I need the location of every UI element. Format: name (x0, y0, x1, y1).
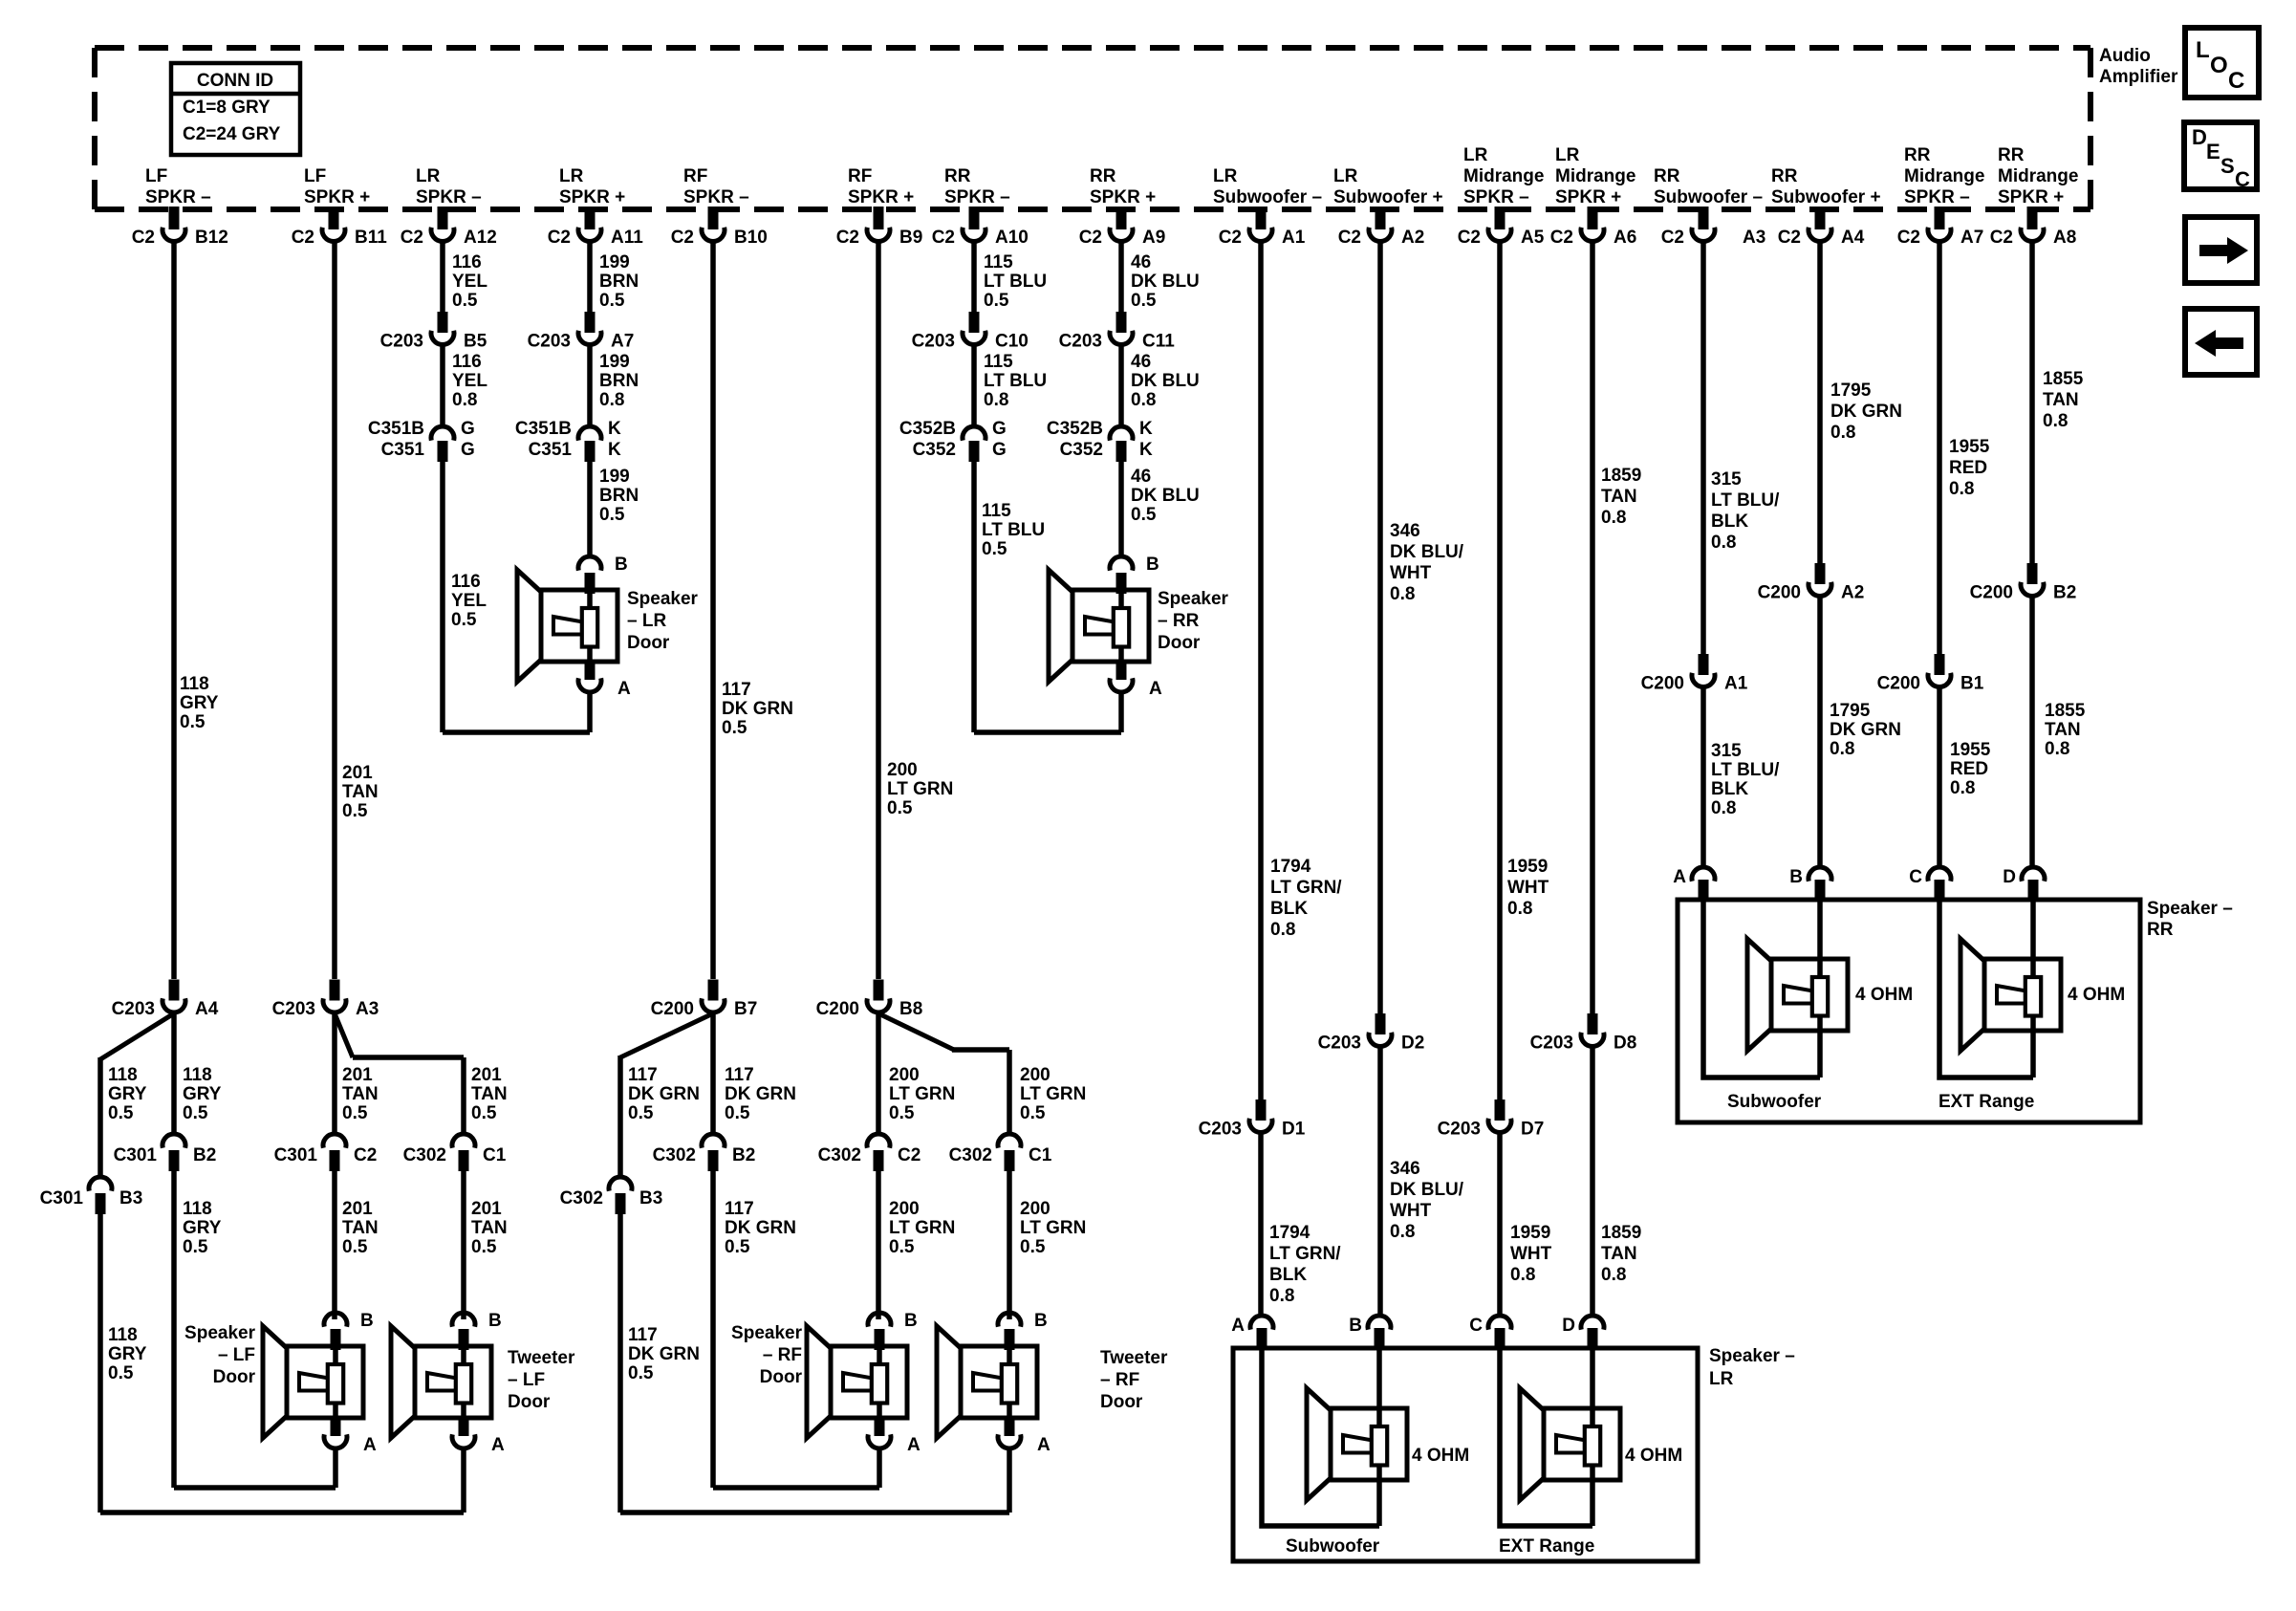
svg-text:1794: 1794 (1269, 1223, 1310, 1243)
svg-text:0.5: 0.5 (1020, 1237, 1046, 1257)
svg-text:D7: D7 (1521, 1120, 1544, 1140)
svg-text:Subwoofer –: Subwoofer – (1654, 187, 1763, 207)
svg-text:B1: B1 (1960, 674, 1984, 694)
svg-text:D: D (1562, 1316, 1575, 1336)
svg-text:0.5: 0.5 (725, 1237, 750, 1257)
svg-text:TAN: TAN (2045, 720, 2081, 740)
svg-text:RR: RR (1771, 166, 1798, 186)
svg-text:CONN ID: CONN ID (197, 71, 273, 91)
svg-text:Door: Door (1100, 1392, 1143, 1412)
svg-text:B5: B5 (464, 332, 487, 352)
svg-text:Speaker: Speaker (731, 1323, 803, 1343)
svg-text:346: 346 (1390, 1159, 1420, 1179)
svg-text:115: 115 (984, 352, 1013, 372)
svg-text:C200: C200 (816, 999, 859, 1019)
svg-text:G: G (461, 419, 475, 439)
svg-text:1859: 1859 (1601, 466, 1641, 486)
svg-text:Speaker: Speaker (184, 1323, 256, 1343)
svg-text:– LF: – LF (508, 1370, 545, 1390)
svg-text:0.5: 0.5 (342, 1103, 368, 1123)
svg-text:C2: C2 (1661, 228, 1684, 248)
svg-text:GRY: GRY (108, 1344, 147, 1364)
svg-text:315: 315 (1711, 741, 1742, 761)
svg-text:A: A (1037, 1435, 1051, 1455)
svg-text:Subwoofer: Subwoofer (1286, 1536, 1380, 1557)
svg-text:B: B (904, 1311, 918, 1331)
svg-text:0.8: 0.8 (1949, 479, 1974, 499)
svg-text:SPKR –: SPKR – (1904, 187, 1970, 207)
svg-text:TAN: TAN (471, 1084, 508, 1104)
svg-text:C301: C301 (114, 1145, 158, 1165)
svg-text:A: A (491, 1435, 505, 1455)
svg-text:Door: Door (760, 1367, 803, 1387)
svg-text:199: 199 (599, 467, 630, 487)
svg-text:D: D (2003, 867, 2016, 887)
svg-text:K: K (608, 440, 621, 460)
svg-text:SPKR –: SPKR – (944, 187, 1010, 207)
svg-text:1795: 1795 (1830, 381, 1872, 401)
svg-text:B2: B2 (732, 1145, 755, 1165)
svg-text:WHT: WHT (1510, 1244, 1552, 1264)
svg-text:1794: 1794 (1270, 857, 1311, 877)
svg-text:GRY: GRY (183, 1218, 222, 1238)
svg-text:0.5: 0.5 (471, 1237, 497, 1257)
svg-text:A8: A8 (2053, 228, 2076, 248)
svg-text:0.5: 0.5 (628, 1103, 654, 1123)
svg-text:WHT: WHT (1390, 1201, 1432, 1221)
svg-text:C352B: C352B (899, 419, 956, 439)
svg-text:Speaker: Speaker (627, 589, 699, 609)
svg-text:LT GRN: LT GRN (1020, 1218, 1086, 1238)
svg-text:116: 116 (452, 252, 482, 272)
svg-text:RR: RR (1998, 145, 2025, 165)
svg-text:0.5: 0.5 (984, 291, 1009, 311)
svg-text:BRN: BRN (599, 272, 639, 292)
svg-text:DK GRN: DK GRN (722, 699, 793, 719)
svg-text:4 OHM: 4 OHM (2068, 985, 2125, 1005)
svg-text:C302: C302 (403, 1145, 446, 1165)
svg-text:DK GRN: DK GRN (628, 1084, 700, 1104)
svg-text:C302: C302 (653, 1145, 696, 1165)
svg-text:S: S (2220, 154, 2235, 178)
svg-text:O: O (2210, 53, 2228, 78)
svg-text:0.5: 0.5 (889, 1237, 915, 1257)
svg-text:DK BLU/: DK BLU/ (1390, 542, 1464, 562)
svg-text:RR: RR (1090, 166, 1116, 186)
svg-text:BLK: BLK (1270, 899, 1308, 919)
svg-text:C2: C2 (1219, 228, 1242, 248)
svg-text:0.8: 0.8 (599, 390, 624, 410)
svg-text:Subwoofer –: Subwoofer – (1213, 187, 1322, 207)
svg-text:LT BLU/: LT BLU/ (1711, 490, 1780, 511)
svg-text:Midrange: Midrange (1555, 166, 1635, 186)
svg-text:– RF: – RF (763, 1345, 802, 1365)
svg-text:RR: RR (2147, 920, 2174, 940)
svg-text:LR: LR (1333, 166, 1358, 186)
svg-text:C: C (1469, 1316, 1483, 1336)
svg-text:315: 315 (1711, 469, 1742, 490)
svg-text:C200: C200 (1641, 674, 1684, 694)
svg-text:C301: C301 (40, 1188, 84, 1208)
svg-text:200: 200 (889, 1199, 920, 1219)
svg-text:0.5: 0.5 (599, 291, 625, 311)
svg-text:0.5: 0.5 (183, 1237, 208, 1257)
svg-text:C1: C1 (483, 1145, 507, 1165)
svg-text:LR: LR (416, 166, 441, 186)
svg-text:46: 46 (1131, 467, 1151, 487)
svg-text:C2: C2 (1079, 228, 1102, 248)
svg-text:C203: C203 (380, 332, 423, 352)
svg-text:TAN: TAN (342, 782, 379, 802)
svg-text:A4: A4 (1841, 228, 1865, 248)
svg-text:C203: C203 (112, 999, 155, 1019)
svg-text:200: 200 (887, 760, 918, 780)
svg-text:GRY: GRY (180, 693, 219, 713)
svg-text:1855: 1855 (2043, 369, 2084, 389)
svg-text:B2: B2 (193, 1145, 216, 1165)
svg-text:0.8: 0.8 (1601, 508, 1626, 528)
svg-text:C352B: C352B (1047, 419, 1103, 439)
svg-text:B10: B10 (734, 228, 768, 248)
svg-text:C200: C200 (1970, 583, 2013, 603)
svg-text:BRN: BRN (599, 486, 639, 506)
svg-text:C301: C301 (274, 1145, 318, 1165)
svg-text:LR: LR (1555, 145, 1580, 165)
svg-text:Speaker –: Speaker – (2147, 899, 2233, 919)
svg-text:LT BLU: LT BLU (984, 371, 1047, 391)
svg-text:C203: C203 (528, 332, 571, 352)
svg-text:200: 200 (1020, 1199, 1051, 1219)
svg-text:115: 115 (984, 252, 1013, 272)
svg-text:– LR: – LR (627, 611, 666, 631)
svg-text:TAN: TAN (1601, 487, 1637, 507)
svg-text:117: 117 (628, 1325, 658, 1345)
svg-text:D2: D2 (1401, 1034, 1424, 1054)
svg-text:B12: B12 (195, 228, 228, 248)
svg-text:TAN: TAN (1601, 1244, 1637, 1264)
svg-text:0.8: 0.8 (1950, 778, 1975, 798)
svg-text:0.8: 0.8 (1270, 920, 1295, 940)
svg-text:0.5: 0.5 (471, 1103, 497, 1123)
svg-text:201: 201 (342, 763, 373, 783)
svg-text:SPKR –: SPKR – (416, 187, 482, 207)
svg-text:RR: RR (944, 166, 971, 186)
svg-text:0.8: 0.8 (1131, 390, 1156, 410)
svg-text:0.5: 0.5 (342, 801, 368, 821)
svg-text:1955: 1955 (1950, 740, 1991, 760)
svg-text:0.8: 0.8 (1269, 1286, 1294, 1306)
svg-text:0.8: 0.8 (2045, 739, 2069, 759)
svg-text:C2: C2 (292, 228, 314, 248)
svg-text:C11: C11 (1142, 332, 1175, 352)
svg-text:C351B: C351B (368, 419, 424, 439)
svg-text:0.5: 0.5 (982, 539, 1007, 559)
svg-text:C2: C2 (932, 228, 955, 248)
svg-text:A: A (907, 1435, 921, 1455)
svg-text:C: C (1909, 867, 1922, 887)
svg-text:C: C (2228, 68, 2244, 94)
svg-text:B3: B3 (119, 1188, 142, 1208)
svg-text:0.5: 0.5 (183, 1103, 208, 1123)
svg-text:RR: RR (1654, 166, 1680, 186)
svg-text:A1: A1 (1724, 674, 1748, 694)
svg-text:G: G (992, 419, 1007, 439)
svg-text:0.8: 0.8 (1510, 1265, 1535, 1285)
svg-text:RED: RED (1950, 759, 1988, 779)
svg-text:DK BLU/: DK BLU/ (1390, 1180, 1464, 1200)
svg-text:SPKR +: SPKR + (1090, 187, 1156, 207)
svg-text:0.8: 0.8 (452, 390, 477, 410)
svg-text:– RF: – RF (1100, 1370, 1139, 1390)
svg-text:117: 117 (725, 1199, 754, 1219)
svg-text:A10: A10 (995, 228, 1029, 248)
svg-text:BLK: BLK (1711, 779, 1748, 799)
svg-text:0.5: 0.5 (887, 798, 913, 818)
svg-text:C351B: C351B (515, 419, 572, 439)
svg-text:C1: C1 (1029, 1145, 1052, 1165)
svg-text:C351: C351 (529, 440, 573, 460)
svg-text:118: 118 (108, 1065, 138, 1085)
svg-text:C203: C203 (912, 332, 955, 352)
svg-text:DK GRN: DK GRN (1830, 402, 1902, 422)
svg-text:0.8: 0.8 (1390, 584, 1415, 604)
svg-text:SPKR +: SPKR + (848, 187, 914, 207)
svg-text:– LF: – LF (218, 1345, 255, 1365)
svg-text:C302: C302 (560, 1188, 603, 1208)
svg-text:118: 118 (183, 1199, 212, 1219)
svg-text:117: 117 (628, 1065, 658, 1085)
svg-text:B: B (1034, 1311, 1048, 1331)
svg-text:4 OHM: 4 OHM (1855, 985, 1913, 1005)
svg-text:118: 118 (183, 1065, 212, 1085)
svg-text:LT GRN: LT GRN (889, 1218, 955, 1238)
svg-text:B: B (1349, 1316, 1362, 1336)
svg-text:C352: C352 (1060, 440, 1103, 460)
svg-text:C2=24 GRY: C2=24 GRY (183, 124, 281, 144)
svg-text:SPKR –: SPKR – (1463, 187, 1529, 207)
svg-text:0.8: 0.8 (1390, 1222, 1415, 1242)
svg-text:EXT Range: EXT Range (1939, 1092, 2034, 1112)
svg-text:B: B (1146, 555, 1159, 575)
svg-text:117: 117 (725, 1065, 754, 1085)
svg-text:201: 201 (471, 1065, 502, 1085)
svg-text:A: A (363, 1435, 377, 1455)
svg-text:LF: LF (145, 166, 167, 186)
svg-text:LT BLU: LT BLU (984, 272, 1047, 292)
svg-text:346: 346 (1390, 521, 1420, 541)
svg-text:LT GRN: LT GRN (887, 779, 953, 799)
svg-text:DK GRN: DK GRN (725, 1218, 796, 1238)
svg-text:LR: LR (1709, 1369, 1734, 1389)
svg-text:4 OHM: 4 OHM (1412, 1446, 1469, 1466)
svg-text:A2: A2 (1401, 228, 1424, 248)
svg-text:A7: A7 (1960, 228, 1983, 248)
svg-text:WHT: WHT (1390, 563, 1432, 583)
svg-text:Amplifier: Amplifier (2099, 67, 2178, 87)
svg-text:YEL: YEL (452, 272, 487, 292)
svg-text:0.5: 0.5 (599, 505, 625, 525)
svg-text:0.5: 0.5 (1020, 1103, 1046, 1123)
svg-text:C203: C203 (1530, 1034, 1573, 1054)
svg-text:B8: B8 (899, 999, 922, 1019)
svg-text:LT GRN/: LT GRN/ (1269, 1244, 1341, 1264)
svg-text:200: 200 (889, 1065, 920, 1085)
svg-text:Midrange: Midrange (1463, 166, 1544, 186)
svg-text:A6: A6 (1614, 228, 1636, 248)
svg-text:DK BLU: DK BLU (1131, 272, 1200, 292)
svg-text:LT GRN: LT GRN (1020, 1084, 1086, 1104)
svg-text:– RR: – RR (1158, 611, 1200, 631)
svg-text:C2: C2 (1550, 228, 1573, 248)
svg-text:C203: C203 (1318, 1034, 1361, 1054)
svg-text:TAN: TAN (342, 1084, 379, 1104)
svg-text:DK BLU: DK BLU (1131, 486, 1200, 506)
svg-text:RR: RR (1904, 145, 1931, 165)
svg-text:A3: A3 (356, 999, 379, 1019)
svg-text:C: C (2235, 167, 2250, 191)
svg-text:A: A (1673, 867, 1686, 887)
svg-text:C203: C203 (272, 999, 315, 1019)
svg-text:BLK: BLK (1269, 1265, 1307, 1285)
svg-text:201: 201 (342, 1199, 373, 1219)
svg-text:0.8: 0.8 (2043, 411, 2068, 431)
svg-text:0.5: 0.5 (1131, 505, 1157, 525)
svg-text:SPKR –: SPKR – (683, 187, 749, 207)
svg-text:G: G (461, 440, 475, 460)
svg-text:A3: A3 (1743, 228, 1765, 248)
svg-text:C352: C352 (913, 440, 956, 460)
svg-text:WHT: WHT (1507, 878, 1549, 898)
svg-text:Subwoofer: Subwoofer (1727, 1092, 1822, 1112)
svg-text:46: 46 (1131, 252, 1151, 272)
svg-text:LT GRN/: LT GRN/ (1270, 878, 1342, 898)
svg-text:0.8: 0.8 (1830, 423, 1855, 443)
svg-text:1795: 1795 (1830, 701, 1871, 721)
svg-text:0.5: 0.5 (108, 1363, 134, 1383)
svg-text:D1: D1 (1282, 1120, 1306, 1140)
svg-text:L: L (2196, 37, 2210, 63)
svg-text:SPKR +: SPKR + (1998, 187, 2064, 207)
svg-text:C302: C302 (949, 1145, 992, 1165)
svg-text:116: 116 (452, 352, 482, 372)
svg-text:0.5: 0.5 (452, 291, 478, 311)
svg-text:TAN: TAN (2043, 390, 2079, 410)
svg-text:C2: C2 (898, 1145, 921, 1165)
svg-text:BRN: BRN (599, 371, 639, 391)
svg-text:C2: C2 (1897, 228, 1920, 248)
svg-text:C203: C203 (1059, 332, 1102, 352)
svg-text:0.5: 0.5 (451, 610, 477, 630)
svg-text:LR: LR (559, 166, 584, 186)
svg-text:D: D (2192, 125, 2207, 149)
svg-text:Door: Door (627, 633, 670, 653)
svg-text:0.8: 0.8 (1711, 533, 1736, 553)
svg-text:GRY: GRY (183, 1084, 222, 1104)
svg-text:C302: C302 (818, 1145, 861, 1165)
svg-text:0.8: 0.8 (1711, 798, 1736, 818)
svg-text:C10: C10 (995, 332, 1029, 352)
svg-text:B9: B9 (899, 228, 922, 248)
svg-text:C2: C2 (671, 228, 694, 248)
svg-text:1959: 1959 (1510, 1223, 1550, 1243)
svg-text:A7: A7 (611, 332, 634, 352)
svg-text:A5: A5 (1521, 228, 1545, 248)
svg-text:200: 200 (1020, 1065, 1051, 1085)
svg-text:K: K (1139, 419, 1153, 439)
svg-text:1859: 1859 (1601, 1223, 1641, 1243)
svg-text:0.5: 0.5 (342, 1237, 368, 1257)
svg-text:SPKR –: SPKR – (145, 187, 211, 207)
svg-text:0.5: 0.5 (628, 1363, 654, 1383)
svg-text:TAN: TAN (342, 1218, 379, 1238)
svg-text:116: 116 (451, 572, 481, 592)
svg-text:4 OHM: 4 OHM (1625, 1446, 1682, 1466)
svg-text:0.8: 0.8 (1830, 739, 1854, 759)
svg-text:DK GRN: DK GRN (628, 1344, 700, 1364)
svg-text:201: 201 (342, 1065, 373, 1085)
svg-text:K: K (608, 419, 621, 439)
svg-text:C2: C2 (1338, 228, 1361, 248)
svg-text:C200: C200 (1877, 674, 1920, 694)
svg-text:LR: LR (1463, 145, 1488, 165)
svg-text:SPKR +: SPKR + (1555, 187, 1621, 207)
svg-text:A9: A9 (1142, 228, 1165, 248)
svg-text:1959: 1959 (1507, 857, 1548, 877)
svg-text:118: 118 (108, 1325, 138, 1345)
svg-text:1855: 1855 (2045, 701, 2086, 721)
svg-text:DK BLU: DK BLU (1131, 371, 1200, 391)
svg-text:LT GRN: LT GRN (889, 1084, 955, 1104)
svg-text:B2: B2 (2053, 583, 2076, 603)
svg-text:0.5: 0.5 (725, 1103, 750, 1123)
svg-text:117: 117 (722, 680, 751, 700)
svg-text:Door: Door (508, 1392, 551, 1412)
svg-text:C2: C2 (836, 228, 859, 248)
svg-text:C2: C2 (1778, 228, 1801, 248)
svg-text:A: A (1149, 679, 1162, 699)
svg-text:C2: C2 (401, 228, 423, 248)
svg-text:C2: C2 (1990, 228, 2013, 248)
svg-text:EXT Range: EXT Range (1499, 1536, 1594, 1557)
svg-text:0.8: 0.8 (1507, 899, 1532, 919)
svg-text:0.5: 0.5 (180, 712, 206, 732)
svg-text:LT BLU/: LT BLU/ (1711, 760, 1780, 780)
svg-text:D8: D8 (1614, 1034, 1636, 1054)
svg-text:Tweeter: Tweeter (508, 1348, 575, 1368)
svg-text:1955: 1955 (1949, 437, 1990, 457)
svg-text:A4: A4 (195, 999, 219, 1019)
svg-text:RED: RED (1949, 458, 1987, 478)
svg-text:B: B (1789, 867, 1803, 887)
svg-text:Midrange: Midrange (1904, 166, 1984, 186)
svg-text:B3: B3 (639, 1188, 662, 1208)
svg-text:199: 199 (599, 252, 630, 272)
svg-text:Tweeter: Tweeter (1100, 1348, 1168, 1368)
svg-text:0.5: 0.5 (889, 1103, 915, 1123)
svg-text:Subwoofer +: Subwoofer + (1771, 187, 1881, 207)
svg-text:Door: Door (1158, 633, 1201, 653)
svg-text:199: 199 (599, 352, 630, 372)
svg-text:RF: RF (848, 166, 872, 186)
svg-text:C200: C200 (651, 999, 694, 1019)
svg-text:Door: Door (213, 1367, 256, 1387)
svg-text:C1=8 GRY: C1=8 GRY (183, 98, 271, 118)
svg-text:E: E (2206, 140, 2220, 163)
svg-text:Speaker: Speaker (1158, 589, 1229, 609)
svg-text:DK GRN: DK GRN (1830, 720, 1901, 740)
svg-text:A: A (1231, 1316, 1245, 1336)
svg-text:A1: A1 (1282, 228, 1306, 248)
